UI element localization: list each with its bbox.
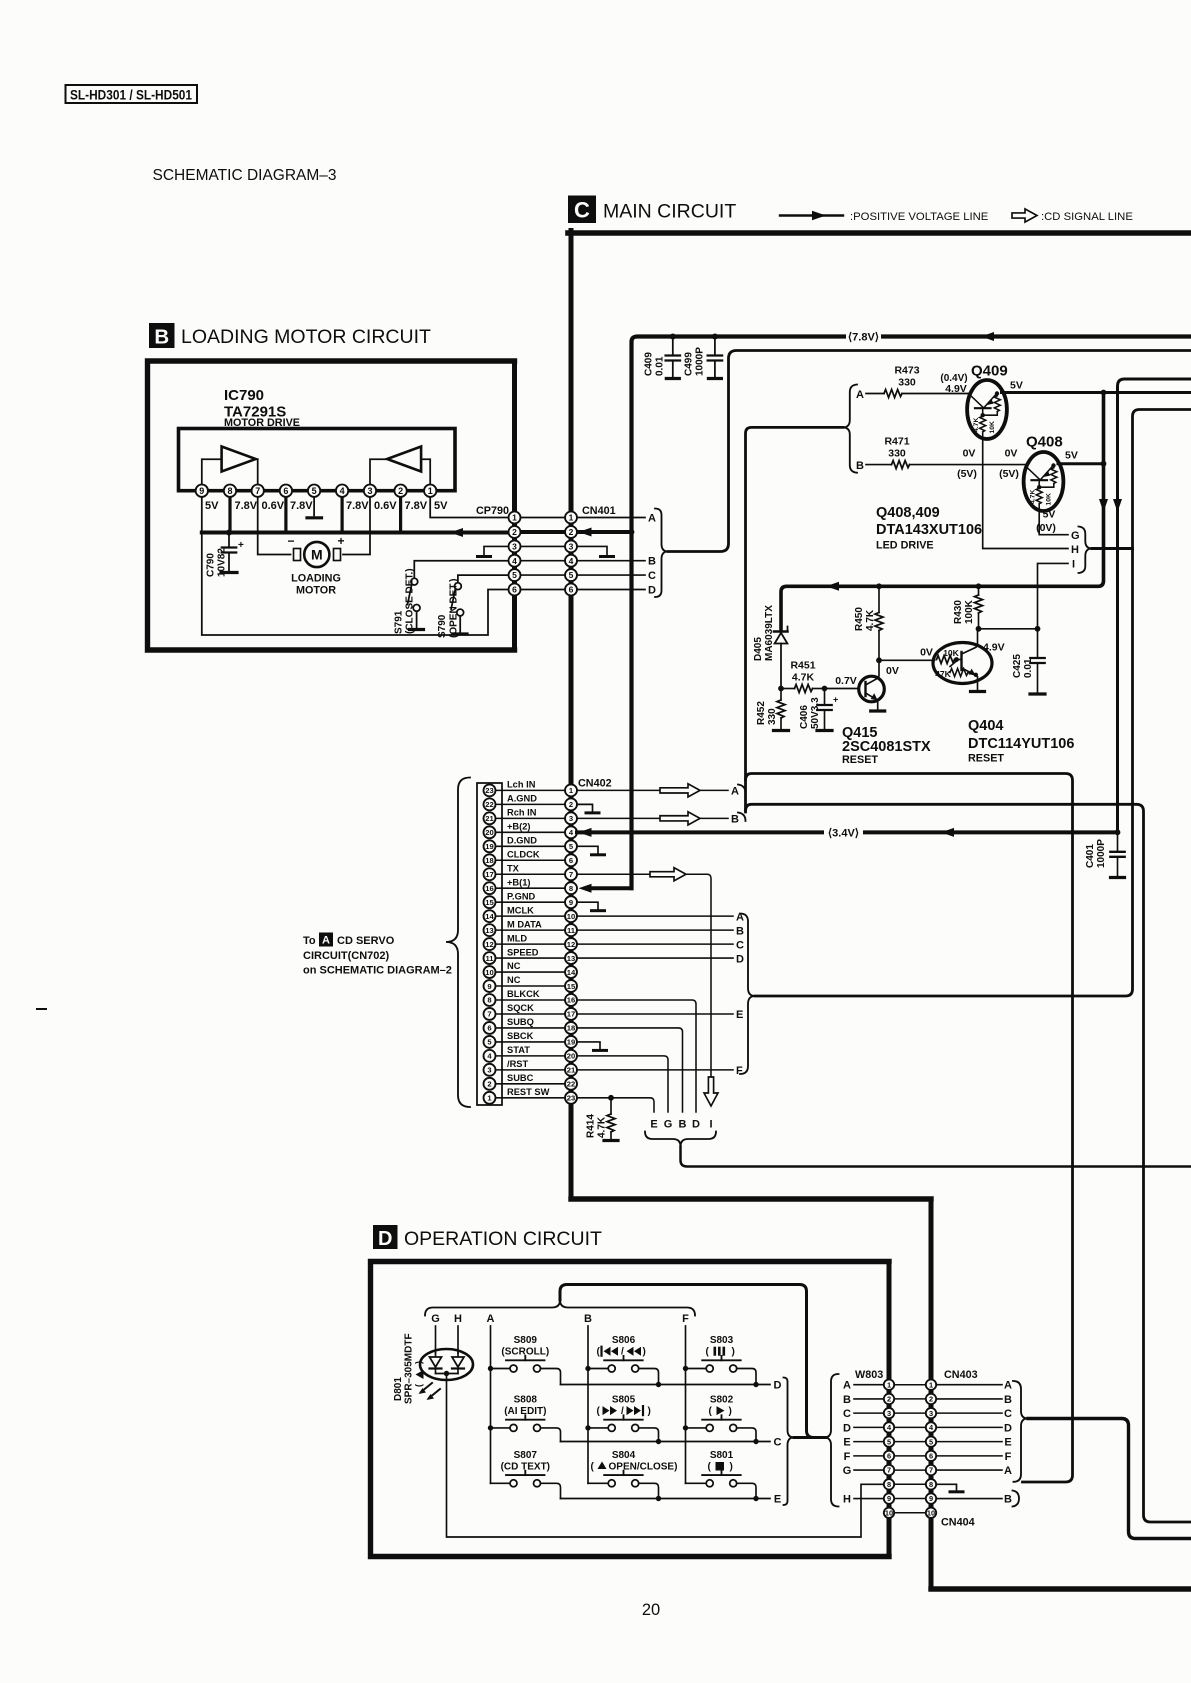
svg-text:2: 2: [887, 1395, 891, 1404]
CP790 pins 1-6: [509, 512, 521, 524]
svg-text:on SCHEMATIC DIAGRAM–2: on SCHEMATIC DIAGRAM–2: [303, 964, 452, 976]
svg-text:D.GND: D.GND: [507, 835, 537, 845]
svg-text:DTC114YUT106: DTC114YUT106: [968, 736, 1074, 752]
svg-text:5: 5: [929, 1437, 933, 1446]
svg-text:MCLK: MCLK: [507, 905, 534, 915]
grounds at row3 both sides: [484, 546, 509, 555]
7.8V power rail: [632, 337, 1191, 889]
svg-text:A: A: [856, 389, 864, 401]
svg-text:330: 330: [888, 448, 906, 460]
CN402 pin12 MLD wire: [577, 943, 733, 945]
svg-text:16: 16: [485, 884, 493, 893]
svg-text:D405: D405: [753, 637, 764, 661]
svg-text:12: 12: [485, 940, 493, 949]
CN402 pin17 SQCK wire: [577, 1013, 733, 1015]
svg-text:OPEN/CLOSE): OPEN/CLOSE): [609, 1462, 678, 1473]
svg-text:50V3.3: 50V3.3: [810, 697, 821, 729]
wire CN401 group to top-right rail y350: [668, 351, 1191, 552]
capacitor C406: [824, 689, 826, 704]
LED emission arrows: [421, 1383, 432, 1392]
junction Q415 collector / R450 / Q404 base: [876, 657, 882, 663]
op-amp buffer 1 (forward): [222, 447, 256, 472]
svg-text:14: 14: [485, 912, 494, 921]
svg-text:4.7K: 4.7K: [597, 1116, 608, 1138]
column wire A: [490, 1326, 492, 1483]
capacitor C409: [670, 334, 676, 340]
svg-text:S805: S805: [612, 1394, 636, 1405]
svg-text:11: 11: [567, 926, 576, 935]
svg-text:B: B: [736, 925, 744, 937]
arrow on V2: [1113, 499, 1122, 512]
svg-text:SBCK: SBCK: [507, 1031, 534, 1041]
svg-text:Rch IN: Rch IN: [507, 808, 537, 818]
CN402 pin1 Lch OUT wire: [577, 789, 728, 791]
svg-text:+: +: [238, 540, 244, 551]
svg-text:20: 20: [567, 1052, 575, 1061]
op-amp buffer 2 (reverse): [387, 447, 421, 472]
svg-text:⟨7.8V⟩: ⟨7.8V⟩: [848, 332, 879, 344]
LED D801 SPR-305MDTF: [420, 1349, 473, 1380]
svg-text:1000P: 1000P: [1096, 839, 1107, 868]
wire IC790 pin7 to motor left: [258, 497, 291, 555]
svg-text:E: E: [736, 1009, 743, 1021]
section label D: [373, 1225, 398, 1249]
svg-text:MAIN CIRCUIT: MAIN CIRCUIT: [603, 201, 736, 223]
wire IC790 pin9 5V down-left rail to CP790 pin6: [202, 497, 509, 635]
svg-text:Q404: Q404: [968, 718, 1003, 734]
svg-text:22: 22: [567, 1080, 575, 1089]
svg-text:OPERATION CIRCUIT: OPERATION CIRCUIT: [404, 1228, 602, 1250]
svg-text:5: 5: [887, 1437, 891, 1446]
wire D801 cathode down and right to W803 pin8: [447, 1376, 884, 1537]
svg-text:10K: 10K: [943, 648, 959, 658]
wire to Q415 base: [825, 688, 859, 690]
svg-text:B: B: [1004, 1494, 1012, 1506]
capacitor C401: [1117, 832, 1119, 850]
wire I line down to C425 node: [1038, 563, 1069, 628]
svg-text:3: 3: [929, 1409, 933, 1418]
loading motor circuit box right edge through CP790: [512, 361, 517, 650]
svg-text:6: 6: [929, 1452, 933, 1461]
ground CN403 pin8: [936, 1484, 957, 1490]
brace W803 rows: [824, 1374, 839, 1507]
section label C: [568, 196, 596, 224]
switch S791 (CLOSE DET.): [414, 561, 508, 579]
svg-text:7.8V: 7.8V: [290, 500, 313, 512]
svg-text:): ): [643, 1347, 646, 1358]
svg-text:(5V): (5V): [957, 468, 977, 480]
main circuit frame jog: bottom-left horizontal: [571, 1196, 931, 1201]
svg-text:A: A: [1004, 1465, 1012, 1477]
svg-text:LOADING: LOADING: [291, 573, 341, 585]
svg-text:0.01: 0.01: [1023, 658, 1034, 678]
svg-text:): ): [730, 1462, 733, 1473]
brace under EGBDI and feed to right: [645, 1132, 716, 1147]
brace grouping A,B inputs: [843, 385, 857, 473]
svg-text:B: B: [843, 1394, 851, 1406]
ground IC790 pin5: [313, 497, 315, 516]
svg-text:Q408,409: Q408,409: [876, 505, 940, 521]
bracket D/C/E rows: [784, 1378, 795, 1506]
Q415 emitter to ground: [877, 700, 879, 709]
svg-text:R450: R450: [854, 607, 865, 631]
wire buffer2 output to pin3: [370, 459, 387, 484]
bracket CN403 A-F group: [1013, 1381, 1028, 1482]
motor drive 7.8V bus: [202, 531, 509, 535]
wire EGBDI group to right edge: [681, 1147, 1191, 1167]
CN402 pins 1..23: [565, 784, 577, 796]
svg-text:7.8V: 7.8V: [405, 500, 428, 512]
svg-text:14: 14: [567, 968, 576, 977]
arrow on 5V reset rail: [826, 582, 839, 591]
svg-text:5V: 5V: [1043, 509, 1056, 521]
CN402 pin16 BLKCK wire down to D: [577, 1000, 696, 1112]
wire IC790 pin3 to motor right: [343, 497, 370, 555]
svg-text:SUBC: SUBC: [507, 1073, 534, 1083]
CN401 pin1 wire to A: [577, 517, 645, 519]
svg-text:A: A: [648, 513, 656, 525]
wire matrix-columns group loop to W803 brace: [560, 1285, 826, 1438]
svg-text:SUBQ: SUBQ: [507, 1017, 534, 1027]
svg-text:1: 1: [428, 486, 433, 496]
svg-text:17: 17: [567, 1010, 575, 1019]
svg-text:8: 8: [569, 884, 573, 893]
switch S809 SCROLL: [488, 1366, 493, 1371]
vertical V1: Q collectors 5V down to reset rail: [781, 393, 1104, 631]
svg-text:SPR–305MDTF: SPR–305MDTF: [404, 1333, 415, 1404]
audio A/B bracket arcs: [738, 785, 746, 794]
svg-text:S791: S791: [394, 610, 405, 634]
svg-text:2: 2: [569, 800, 573, 809]
junction Q409 5V: [1101, 390, 1107, 396]
svg-text:I: I: [1072, 559, 1075, 571]
svg-text:330: 330: [767, 708, 778, 725]
servo-side pins 23..1: [484, 784, 496, 796]
svg-text:5: 5: [512, 570, 517, 580]
svg-text:2: 2: [512, 527, 517, 537]
svg-text:1: 1: [887, 1380, 891, 1389]
svg-text:): ): [729, 1406, 732, 1417]
ground CN402 pin19: [577, 1042, 600, 1049]
svg-text:4.9V: 4.9V: [945, 383, 967, 395]
svg-text:B: B: [731, 814, 739, 826]
svg-text:21: 21: [485, 814, 494, 823]
row wire D: [561, 1384, 771, 1386]
transistor Q404 (DTC114YUT106): [933, 643, 992, 684]
svg-text:MOTOR: MOTOR: [296, 585, 336, 597]
capacitor C425: [1037, 629, 1039, 657]
model label box SL-HD301 / SL-HD501: [66, 85, 198, 103]
svg-text:E: E: [843, 1437, 850, 1449]
svg-text:RESET: RESET: [968, 753, 1004, 765]
svg-text:CLDCK: CLDCK: [507, 849, 540, 859]
arrow on V1: [1099, 499, 1108, 512]
junction 7.8V drop / CN401 pin2: [629, 529, 635, 535]
CN401 pin5 wire to C: [577, 574, 645, 576]
svg-text:F: F: [844, 1451, 851, 1463]
svg-text:Q409: Q409: [971, 363, 1008, 380]
loading motor M: [294, 549, 301, 561]
svg-text:7: 7: [255, 486, 260, 496]
wire IC790 pin4 to 7.8V bus: [341, 497, 344, 533]
operation circuit box: [371, 1262, 890, 1557]
svg-text:I: I: [709, 1119, 712, 1131]
svg-text:R414: R414: [586, 1114, 597, 1138]
svg-text:7: 7: [929, 1466, 933, 1475]
svg-text:F: F: [682, 1313, 689, 1325]
svg-text:(: (: [597, 1406, 601, 1417]
CN402 pin21 /RST wire: [577, 1069, 733, 1071]
svg-text:MA6039LTX: MA6039LTX: [764, 605, 775, 661]
column wire G: [435, 1326, 437, 1353]
CN401 pin6 wire to D: [577, 589, 645, 591]
svg-text:CP790: CP790: [476, 505, 509, 517]
svg-text:E: E: [774, 1494, 781, 1506]
svg-text:6: 6: [512, 585, 517, 595]
svg-text:12: 12: [567, 940, 575, 949]
svg-text:5V: 5V: [1065, 450, 1078, 462]
svg-text:23: 23: [567, 1094, 575, 1103]
svg-text:15: 15: [567, 982, 576, 991]
junction C401 / +B(2): [1115, 829, 1121, 835]
svg-text:−: −: [287, 534, 294, 548]
svg-text:330: 330: [898, 377, 916, 389]
svg-text::CD SIGNAL LINE: :CD SIGNAL LINE: [1041, 211, 1133, 223]
svg-text:17: 17: [485, 870, 493, 879]
svg-text:C790: C790: [206, 553, 217, 577]
CN402 pin23 REST SW wire down to E: [577, 1098, 654, 1112]
svg-text:A: A: [731, 786, 739, 798]
bracket for servo bus A-F: [740, 914, 755, 1075]
section label B: [149, 323, 175, 348]
svg-text:1: 1: [512, 513, 517, 523]
svg-text:): ): [732, 1347, 735, 1358]
CN402 pin13 SPEED wire: [577, 957, 733, 959]
wire R471 to Q408 base: [910, 464, 1028, 466]
svg-text:G: G: [431, 1313, 440, 1325]
svg-text:9: 9: [887, 1494, 891, 1503]
svg-text:CN401: CN401: [582, 505, 616, 517]
svg-text:H: H: [454, 1313, 462, 1325]
svg-text:(OPEN DET.): (OPEN DET.): [449, 579, 460, 638]
capacitor C790: [226, 530, 232, 536]
svg-text:7: 7: [569, 870, 573, 879]
svg-text:10: 10: [927, 1508, 935, 1517]
svg-text:4.7K: 4.7K: [1029, 490, 1036, 504]
switch S803 pause: [683, 1366, 688, 1371]
svg-text:R471: R471: [884, 436, 909, 448]
ground CN402 pin2: [577, 804, 593, 811]
svg-text:(: (: [708, 1462, 712, 1473]
diode D405 MA6039LTX: [774, 630, 788, 633]
main circuit frame left edge: [569, 231, 574, 1200]
svg-text:0V: 0V: [963, 448, 976, 460]
svg-text:22: 22: [485, 800, 493, 809]
svg-text:23: 23: [485, 786, 493, 795]
svg-text:B: B: [856, 460, 864, 472]
svg-text:S803: S803: [710, 1335, 734, 1346]
svg-text:(AI EDIT): (AI EDIT): [504, 1406, 546, 1417]
svg-text:C499: C499: [684, 352, 695, 376]
svg-text:SL-HD301 / SL-HD501: SL-HD301 / SL-HD501: [70, 88, 192, 103]
resistor R451: [781, 688, 795, 690]
resistor R473: [884, 390, 902, 398]
svg-text:G: G: [843, 1465, 852, 1477]
svg-text:C401: C401: [1085, 844, 1096, 868]
svg-text:W803: W803: [855, 1369, 883, 1381]
switch S805 ff/next: [585, 1425, 590, 1430]
junction D405/R451/R452: [778, 686, 784, 692]
svg-text:CN404: CN404: [941, 1517, 975, 1529]
switch S801 stop: [686, 1482, 707, 1484]
overbrace for key matrix columns: [425, 1300, 695, 1316]
svg-text:9: 9: [487, 982, 491, 991]
7.8V label: [846, 329, 881, 343]
svg-text:7.8V: 7.8V: [235, 500, 258, 512]
Q408 collector 5V wire: [1058, 462, 1104, 465]
svg-text:(: (: [597, 1347, 601, 1358]
svg-text:C: C: [1004, 1408, 1012, 1420]
svg-text::POSITIVE VOLTAGE LINE: :POSITIVE VOLTAGE LINE: [850, 211, 989, 223]
svg-text:5V: 5V: [205, 500, 219, 512]
ground CN402 pin5: [577, 846, 598, 853]
svg-text:6: 6: [487, 1024, 491, 1033]
CN401 pins 1-6: [565, 512, 577, 524]
column wire F: [685, 1326, 687, 1483]
svg-text:100K: 100K: [964, 599, 975, 624]
svg-text:S807: S807: [514, 1450, 538, 1461]
main circuit frame top edge: [568, 230, 1191, 236]
svg-text:/RST: /RST: [507, 1059, 528, 1069]
svg-text:⟨3.4V⟩: ⟨3.4V⟩: [828, 827, 859, 839]
svg-text:10K: 10K: [1046, 493, 1053, 506]
svg-text:LOADING MOTOR CIRCUIT: LOADING MOTOR CIRCUIT: [181, 326, 431, 348]
brace to CD servo circuit: [446, 778, 470, 1108]
svg-text:D801: D801: [393, 1377, 404, 1401]
CD signal arrow pin3: [660, 812, 700, 825]
resistor R414: [608, 1095, 614, 1101]
svg-text:C: C: [736, 939, 744, 951]
svg-text:0.01: 0.01: [655, 356, 666, 376]
CN401 pin4 wire to B: [577, 560, 645, 562]
svg-text:G: G: [1071, 530, 1080, 542]
svg-text:10K: 10K: [989, 421, 996, 434]
svg-text:LED DRIVE: LED DRIVE: [876, 540, 934, 552]
svg-text:CN403: CN403: [944, 1369, 978, 1381]
svg-text:2: 2: [929, 1395, 933, 1404]
svg-text:E: E: [1004, 1437, 1011, 1449]
svg-text:): ): [414, 1361, 424, 1364]
svg-text:SCHEMATIC DIAGRAM–3: SCHEMATIC DIAGRAM–3: [153, 167, 337, 184]
svg-text:Q408: Q408: [1026, 434, 1063, 451]
svg-text:5V: 5V: [1010, 380, 1023, 392]
svg-text:2: 2: [487, 1080, 491, 1089]
W803 pins 1-10: [884, 1380, 894, 1390]
svg-text:0V: 0V: [886, 665, 899, 677]
svg-text:13: 13: [567, 954, 575, 963]
CN402 pin3 Rch OUT wire: [577, 817, 728, 819]
column wire H: [457, 1326, 459, 1353]
switch S806 prev/rewind: [585, 1366, 590, 1371]
svg-text:S809: S809: [514, 1335, 538, 1346]
svg-text:(CD TEXT): (CD TEXT): [501, 1462, 550, 1473]
arrowhead on bus: [450, 528, 463, 537]
svg-text:R451: R451: [790, 660, 815, 672]
CN402 pin10 MCLK wire: [577, 915, 733, 917]
svg-text:20: 20: [642, 1601, 660, 1619]
svg-text:13: 13: [485, 926, 493, 935]
svg-text:CIRCUIT(CN702): CIRCUIT(CN702): [303, 950, 390, 962]
svg-text:18: 18: [485, 856, 493, 865]
wire IC790 pin6 to 7.8V bus: [284, 497, 287, 533]
svg-text:5: 5: [312, 486, 317, 496]
capacitor C499: [712, 334, 718, 340]
svg-text:B: B: [1004, 1394, 1012, 1406]
svg-text:7.8V: 7.8V: [346, 500, 369, 512]
svg-text:/: /: [621, 1347, 624, 1358]
svg-text:6: 6: [569, 585, 574, 595]
Q415 collector up to 0V node: [878, 662, 879, 679]
wire H-brace to right riser: [1092, 547, 1133, 550]
svg-text:(CLOSE DET.): (CLOSE DET.): [405, 568, 416, 634]
svg-text:16: 16: [567, 996, 575, 1005]
wire V3 from right edge y409.5 down via H branch to CN402 group bracket: [755, 410, 1191, 997]
svg-text:Lch IN: Lch IN: [507, 780, 536, 790]
svg-text:M: M: [311, 547, 323, 563]
svg-text:D: D: [843, 1422, 851, 1434]
legend positive voltage line: [780, 214, 843, 216]
svg-text:C406: C406: [799, 705, 810, 729]
svg-text:0.6V: 0.6V: [374, 500, 397, 512]
svg-text:0V: 0V: [1005, 448, 1018, 460]
switch S808 AI EDIT: [488, 1425, 493, 1430]
svg-text:RESET: RESET: [842, 754, 878, 766]
svg-text:20: 20: [485, 828, 493, 837]
svg-text:H: H: [843, 1494, 851, 1506]
svg-text:+B(1): +B(1): [507, 877, 531, 887]
svg-text:6: 6: [887, 1452, 891, 1461]
svg-text:A: A: [843, 1380, 851, 1392]
resistor R452: [780, 689, 782, 701]
svg-text:9: 9: [569, 898, 573, 907]
svg-text:10: 10: [885, 1508, 893, 1517]
switch S807 CD TEXT: [491, 1482, 511, 1484]
svg-text:DTA143XUT106: DTA143XUT106: [876, 522, 982, 538]
svg-text:SPEED: SPEED: [507, 947, 539, 957]
junction Q408 5V: [1101, 461, 1107, 467]
svg-text:4.7K: 4.7K: [865, 609, 876, 631]
svg-text:NC: NC: [507, 975, 521, 985]
wire Q409 emitter to H: [983, 439, 1068, 549]
svg-text:3: 3: [569, 814, 573, 823]
svg-text:3: 3: [367, 486, 372, 496]
svg-text:STAT: STAT: [507, 1045, 530, 1055]
svg-text:4.7K: 4.7K: [973, 418, 980, 432]
svg-text:): ): [648, 1406, 651, 1417]
svg-text:C425: C425: [1012, 654, 1023, 678]
svg-text:9: 9: [929, 1494, 933, 1503]
wire Q408 emitter to G: [1039, 511, 1068, 535]
wire 0V to Q404 base: [879, 659, 935, 661]
svg-text:4.7K: 4.7K: [792, 672, 815, 684]
CN402 pin7 TX wire to I arrow: [577, 874, 711, 1077]
svg-text:4.9V: 4.9V: [983, 642, 1005, 654]
svg-text:CN402: CN402: [578, 778, 612, 790]
CN402 pin8 +B(1) feed from 7.8V drop: [591, 886, 632, 890]
svg-text:A: A: [1004, 1380, 1012, 1392]
svg-text:SQCK: SQCK: [507, 1003, 534, 1013]
svg-text:R430: R430: [953, 600, 964, 624]
